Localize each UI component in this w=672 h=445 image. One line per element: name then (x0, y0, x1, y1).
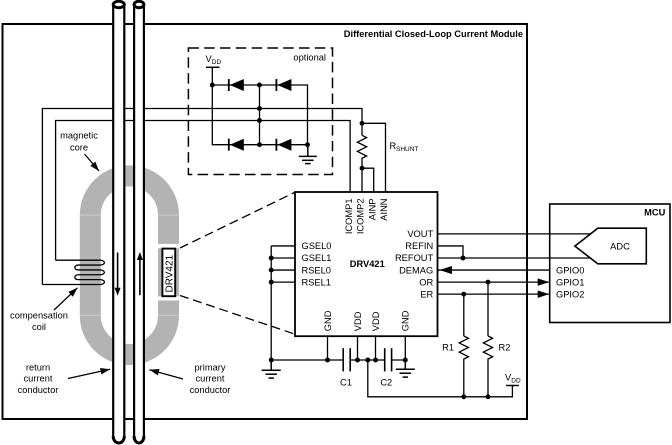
svg-text:RSEL1: RSEL1 (302, 277, 331, 287)
svg-text:DD: DD (212, 59, 222, 66)
svg-text:GND: GND (323, 310, 333, 331)
svg-text:GSEL0: GSEL0 (302, 241, 332, 251)
svg-text:conductor: conductor (18, 385, 59, 395)
svg-text:AINP: AINP (367, 199, 377, 221)
svg-text:GPIO1: GPIO1 (556, 277, 584, 287)
svg-text:VDD: VDD (353, 311, 363, 331)
svg-text:DRV421: DRV421 (350, 259, 385, 269)
svg-text:compensation: compensation (10, 311, 68, 321)
svg-text:SHUNT: SHUNT (396, 146, 418, 153)
svg-text:ER: ER (420, 289, 433, 299)
svg-text:DD: DD (511, 378, 521, 385)
svg-text:Differential Closed-Loop Curre: Differential Closed-Loop Current Module (344, 29, 523, 39)
svg-text:OR: OR (419, 277, 433, 287)
svg-text:MCU: MCU (644, 208, 665, 218)
svg-text:R1: R1 (442, 342, 454, 352)
svg-text:C2: C2 (380, 377, 392, 387)
svg-text:return: return (26, 363, 50, 373)
svg-text:GPIO0: GPIO0 (556, 265, 584, 275)
svg-text:ICOMP2: ICOMP2 (356, 199, 366, 235)
svg-text:DRV421: DRV421 (164, 254, 175, 292)
svg-text:ADC: ADC (610, 241, 630, 251)
svg-text:conductor: conductor (190, 385, 231, 395)
svg-text:C1: C1 (340, 377, 352, 387)
svg-text:current: current (24, 374, 53, 384)
svg-text:optional: optional (293, 53, 326, 63)
svg-text:REFIN: REFIN (405, 241, 433, 251)
svg-text:RSEL0: RSEL0 (302, 265, 331, 275)
svg-text:primary: primary (195, 363, 226, 373)
svg-text:ICOMP1: ICOMP1 (344, 199, 354, 235)
svg-text:GPIO2: GPIO2 (556, 289, 584, 299)
svg-text:magnetic: magnetic (60, 131, 98, 141)
svg-text:AINN: AINN (379, 199, 389, 221)
svg-text:R2: R2 (499, 342, 511, 352)
svg-text:VOUT: VOUT (407, 229, 433, 239)
svg-text:coil: coil (32, 322, 46, 332)
svg-text:VDD: VDD (371, 311, 381, 331)
svg-text:GSEL1: GSEL1 (302, 253, 332, 263)
svg-text:core: core (70, 143, 88, 153)
svg-text:DEMAG: DEMAG (399, 265, 433, 275)
svg-text:REFOUT: REFOUT (395, 253, 434, 263)
svg-text:GND: GND (401, 310, 411, 331)
svg-text:current: current (196, 374, 225, 384)
